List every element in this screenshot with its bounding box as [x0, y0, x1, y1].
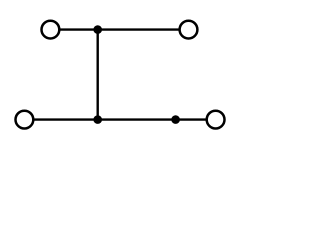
wire (top horizontal)	[59, 28, 179, 30]
junction dot (bottom right)	[171, 115, 180, 124]
wire (bottom horizontal)	[33, 118, 206, 120]
terminal circle X3 (bottom-left)	[16, 111, 34, 129]
terminal circle X1 (top-left)	[42, 21, 60, 39]
junction dot (top, bridge tap)	[93, 25, 102, 34]
junction dot (bottom middle)	[93, 115, 102, 124]
terminal circle X4 (bottom-right)	[207, 111, 225, 129]
terminal circle X2 (top-right)	[180, 21, 198, 39]
wire (vertical bridge)	[96, 30, 98, 120]
